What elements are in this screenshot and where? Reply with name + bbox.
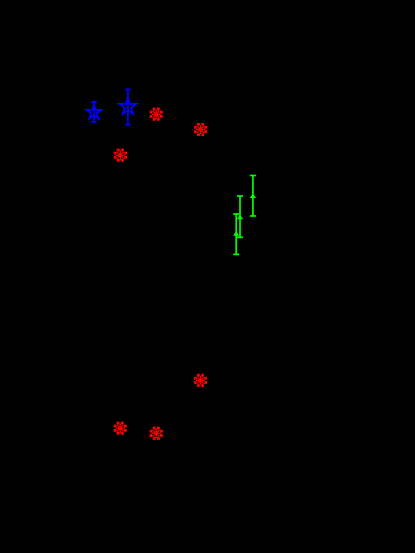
green data point 1 error bar bbox=[250, 176, 256, 217]
blue data point 1 star marker bbox=[86, 104, 101, 118]
red asterisk point 4 bbox=[194, 374, 206, 386]
blue data point 1 error bar bbox=[91, 102, 97, 122]
blue data point 2 star marker bbox=[119, 98, 136, 114]
red asterisk point 6 bbox=[150, 427, 162, 439]
red asterisk point 1 bbox=[150, 108, 162, 120]
green data point 2 error bar bbox=[237, 196, 243, 237]
green data point 3 triangle marker bbox=[233, 231, 239, 236]
red asterisk point 2 bbox=[195, 123, 207, 135]
blue data point 2 error bar bbox=[125, 90, 131, 125]
green data point 1 triangle marker bbox=[250, 193, 256, 198]
red asterisk point 5 bbox=[114, 422, 126, 434]
green data point 3 error bar bbox=[233, 214, 239, 254]
green data point 2 triangle marker bbox=[237, 214, 243, 219]
red asterisk point 3 bbox=[114, 149, 126, 161]
